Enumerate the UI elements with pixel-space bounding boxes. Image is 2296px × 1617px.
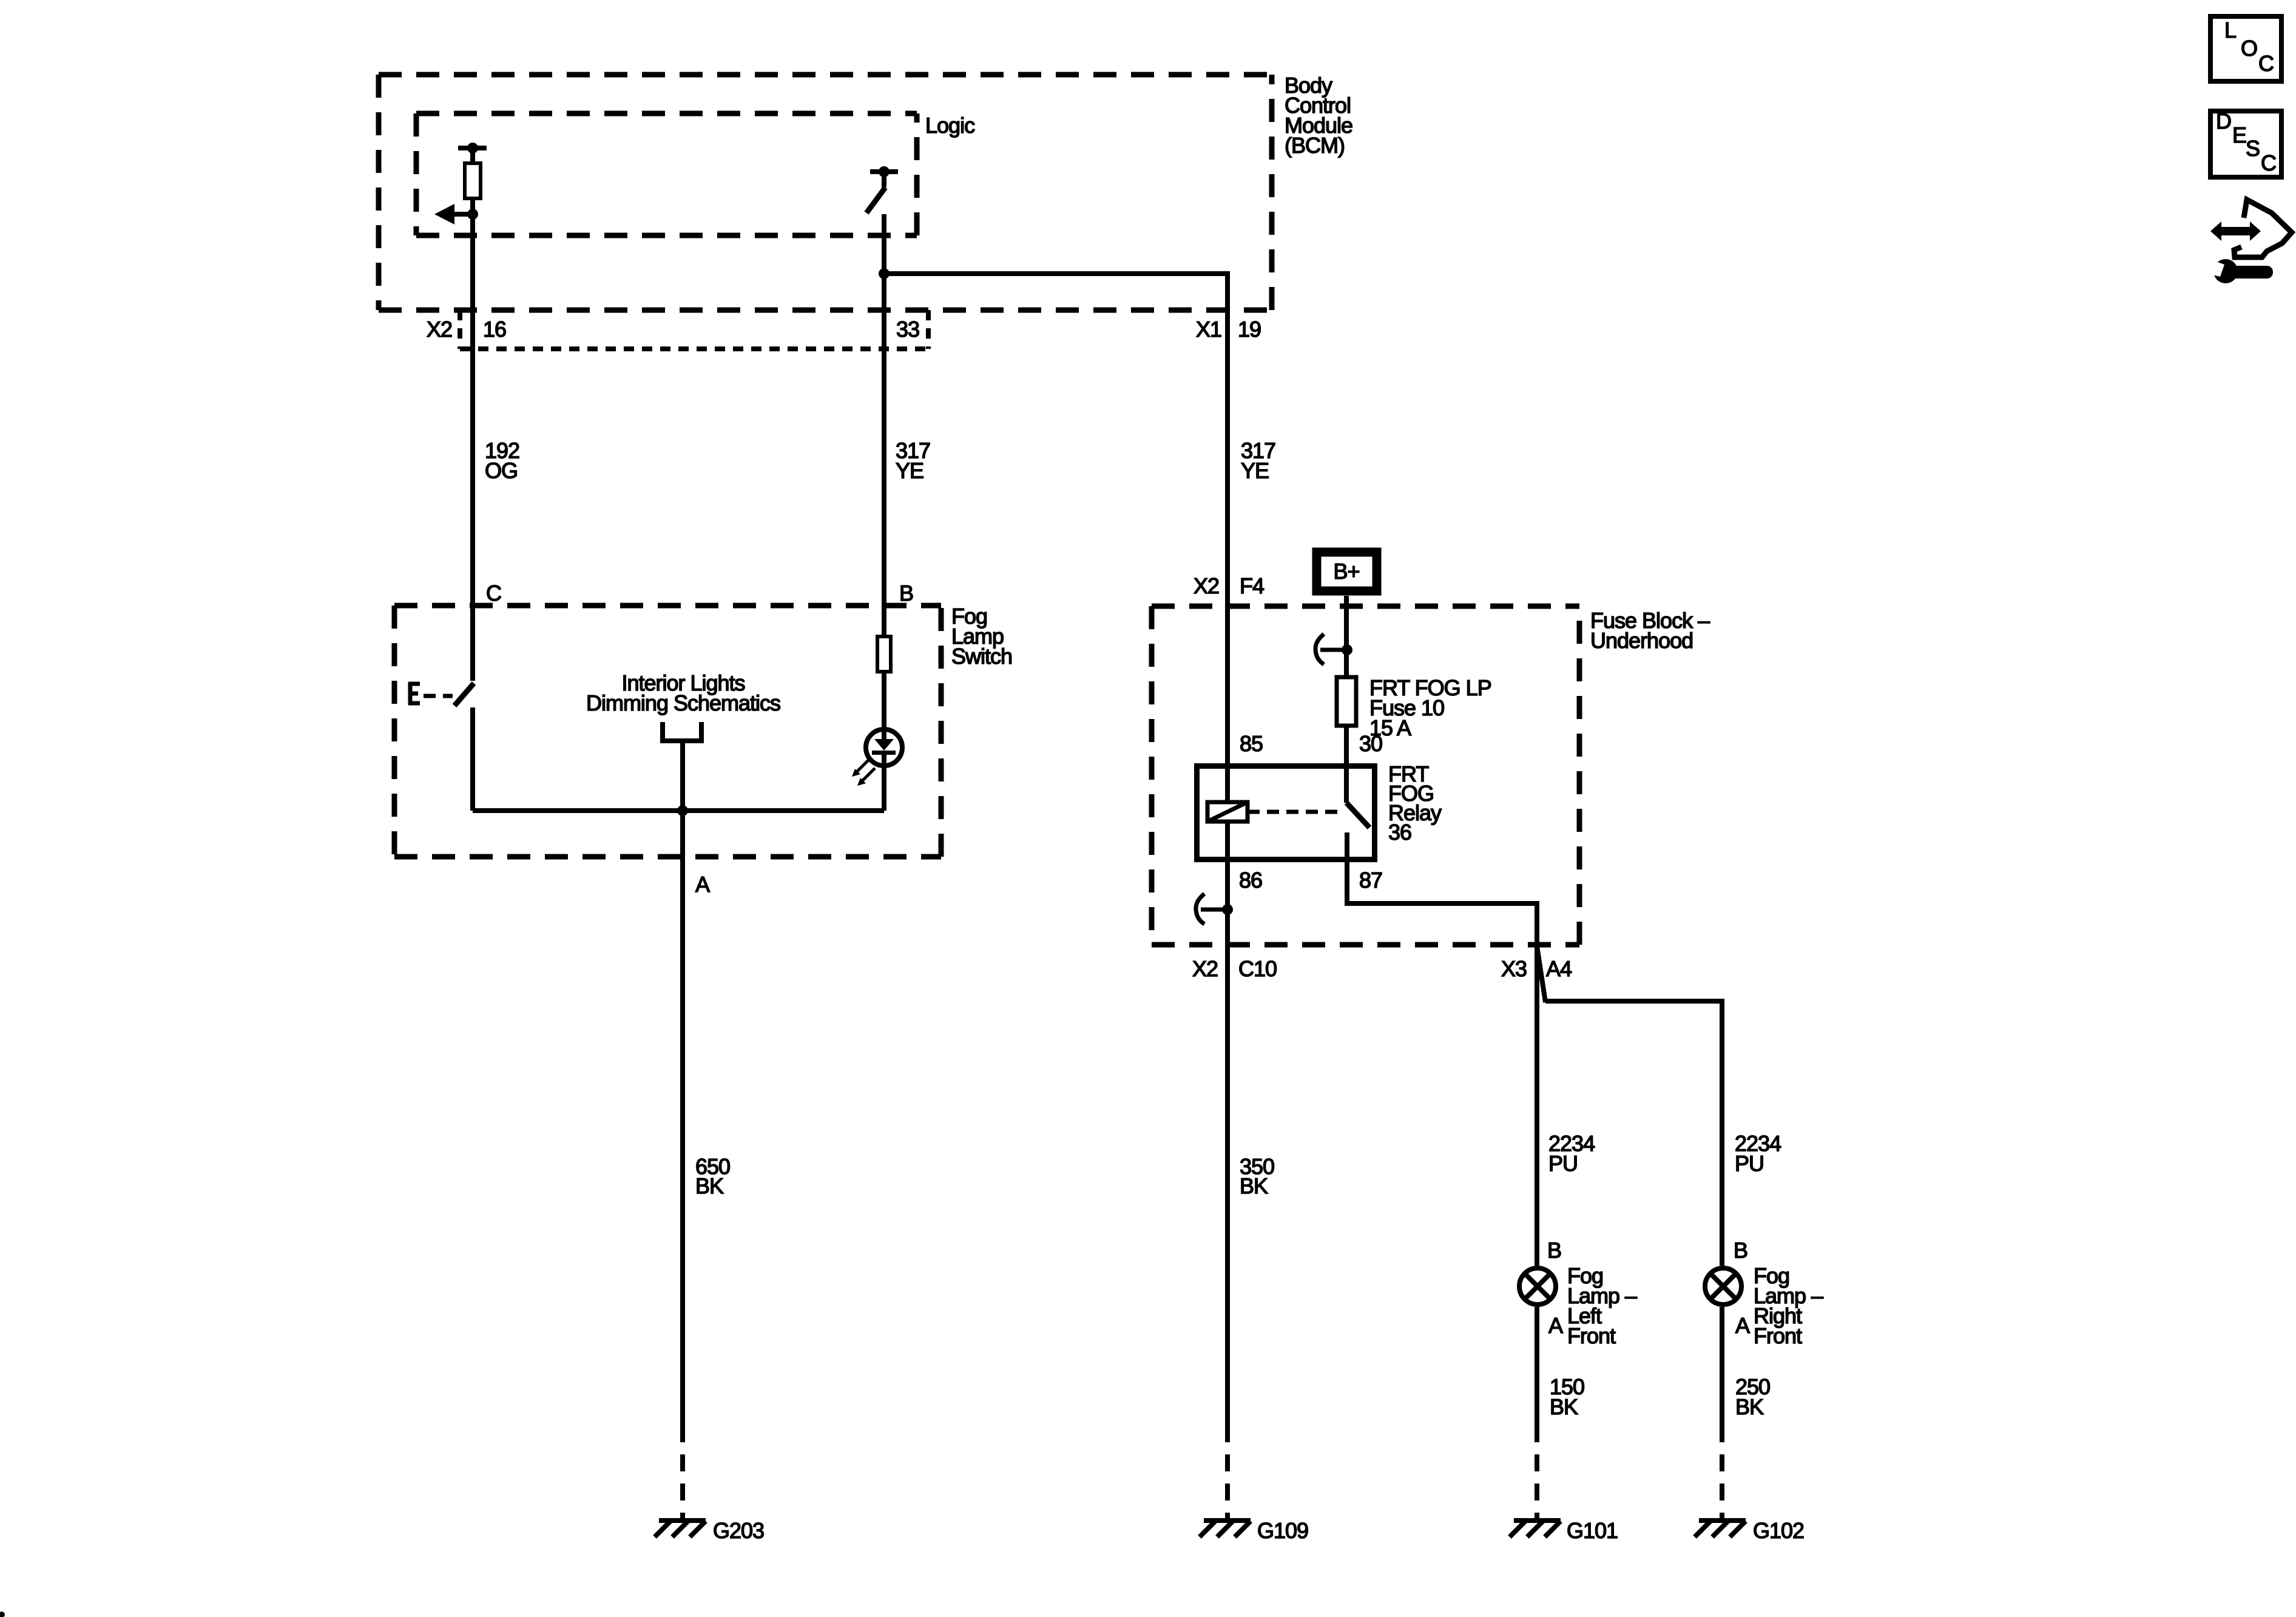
svg-text:YE: YE — [896, 458, 923, 483]
wire relay pin 87 to X3 A4 — [1347, 862, 1537, 1266]
svg-text:Front: Front — [1754, 1323, 1802, 1348]
relay FRT FOG Relay 36 box — [1197, 766, 1375, 860]
ground G102 — [1695, 1521, 1746, 1537]
Fuse Block Underhood box — [1152, 606, 1579, 945]
switch (fog lamp switch contact) — [454, 683, 474, 706]
DESC icon box — [2210, 111, 2281, 177]
svg-text:Front: Front — [1567, 1323, 1616, 1348]
svg-text:C10: C10 — [1238, 956, 1277, 981]
B+ battery feed — [1317, 552, 1377, 591]
node junction at pin A — [677, 805, 688, 816]
connector-view icon double arrow — [2210, 221, 2261, 241]
svg-text:G101: G101 — [1567, 1518, 1618, 1543]
page period mark — [0, 1612, 5, 1617]
svg-text:C: C — [2258, 51, 2274, 76]
svg-text:PU: PU — [1548, 1151, 1578, 1176]
svg-text:YE: YE — [1241, 458, 1269, 483]
wire switch common bus — [473, 808, 884, 813]
svg-text:L: L — [2224, 18, 2236, 42]
bus tap at pin 86 wire — [1196, 894, 1233, 924]
svg-text:X3: X3 — [1501, 956, 1527, 981]
svg-text:Switch: Switch — [951, 644, 1012, 669]
svg-text:E: E — [2232, 123, 2246, 147]
fuse FRT FOG LP Fuse 10 15 A — [1337, 677, 1356, 726]
connector-view icon hand outline — [2234, 200, 2292, 257]
svg-text:BK: BK — [1550, 1394, 1578, 1419]
wire branch to right fog lamp — [1545, 1001, 1722, 1266]
svg-text:A: A — [1548, 1313, 1563, 1338]
wire junction to X1 pin 19 — [884, 274, 1227, 802]
svg-text:16: 16 — [483, 317, 506, 342]
svg-text:A: A — [695, 872, 710, 897]
svg-text:B: B — [1547, 1238, 1561, 1263]
connector X2 dotted strip — [458, 310, 462, 349]
svg-text:C: C — [2261, 150, 2276, 175]
wire pin A to ground G203 — [680, 811, 685, 1425]
dashed relay actuator link — [1248, 810, 1342, 814]
svg-text:A4: A4 — [1546, 956, 1572, 981]
svg-text:PU: PU — [1735, 1151, 1764, 1176]
wrench icon — [2213, 259, 2238, 283]
svg-text:B+: B+ — [1333, 559, 1359, 584]
svg-text:36: 36 — [1388, 820, 1411, 845]
E terminal symbol — [408, 682, 420, 705]
svg-text:G203: G203 — [713, 1518, 764, 1543]
Fog Lamp Left Front — [1519, 1268, 1556, 1305]
wire lamp to ground G102 — [1720, 1307, 1724, 1425]
dashed actuator link — [424, 694, 453, 698]
svg-text:X2: X2 — [1194, 573, 1219, 598]
LED indicator — [866, 729, 902, 766]
svg-text:X2: X2 — [427, 317, 452, 342]
ground G203 — [655, 1521, 706, 1537]
svg-text:BK: BK — [1240, 1173, 1268, 1198]
off-page connector (Interior Lights Dimming Schematics) — [660, 722, 704, 741]
svg-text:D: D — [2216, 109, 2231, 133]
connector pass-through diagonal X3 A4 — [1537, 946, 1545, 1002]
BCM box: Body Control Module dashed outline — [379, 75, 1272, 310]
wire B+ to fuse — [1344, 596, 1349, 675]
bus tap at fuse feed — [1315, 634, 1352, 664]
svg-text:85: 85 — [1240, 731, 1263, 756]
svg-text:BK: BK — [695, 1173, 724, 1198]
wire fuse to relay pin 30 — [1344, 726, 1349, 803]
svg-text:G102: G102 — [1753, 1518, 1804, 1543]
node junction at BCM switch output — [879, 268, 890, 279]
wire pin C10 circuit to ground G109 — [1225, 822, 1230, 1425]
wire pin 16 down to fog lamp switch pin C — [470, 200, 475, 681]
relay coil — [1207, 802, 1248, 822]
svg-text:33: 33 — [896, 317, 919, 342]
wire off-page stem — [680, 741, 685, 811]
resistor (indicator dropping resistor) — [877, 636, 891, 672]
ground G101 — [1510, 1521, 1561, 1537]
svg-text:C: C — [486, 581, 501, 606]
LOC icon box — [2210, 16, 2281, 81]
svg-text:X1: X1 — [1196, 317, 1221, 342]
svg-text:Dimming Schematics: Dimming Schematics — [586, 690, 780, 715]
svg-text:Underhood: Underhood — [1590, 628, 1693, 653]
svg-text:F4: F4 — [1240, 573, 1264, 598]
relay switch contact — [1346, 803, 1369, 828]
svg-text:OG: OG — [485, 458, 518, 483]
svg-text:Logic: Logic — [925, 113, 975, 138]
svg-text:BK: BK — [1735, 1394, 1764, 1419]
wire pin 33 down to fog lamp switch pin B — [882, 214, 886, 635]
svg-text:A: A — [1735, 1313, 1750, 1338]
resistor (BCM driver output) — [458, 146, 487, 150]
svg-text:X2: X2 — [1192, 956, 1218, 981]
ground G109 — [1200, 1521, 1251, 1537]
wire lamp to ground G101 — [1535, 1307, 1539, 1425]
Logic box: dashed inner box — [416, 113, 917, 235]
svg-text:G109: G109 — [1257, 1518, 1308, 1543]
svg-text:(BCM): (BCM) — [1285, 133, 1345, 158]
switch (BCM logic switch) — [870, 169, 898, 174]
arrow (driver output arrow) — [454, 212, 474, 217]
svg-text:B: B — [1734, 1238, 1747, 1263]
Fog Lamp Right Front — [1705, 1268, 1741, 1305]
svg-text:O: O — [2241, 36, 2257, 61]
LED light arrows — [857, 759, 869, 772]
svg-text:B: B — [899, 581, 913, 606]
svg-text:30: 30 — [1359, 731, 1382, 756]
svg-text:S: S — [2246, 136, 2260, 161]
Fog Lamp Switch box — [394, 606, 941, 857]
svg-text:86: 86 — [1239, 868, 1262, 893]
svg-text:19: 19 — [1238, 317, 1261, 342]
svg-text:87: 87 — [1359, 868, 1382, 893]
